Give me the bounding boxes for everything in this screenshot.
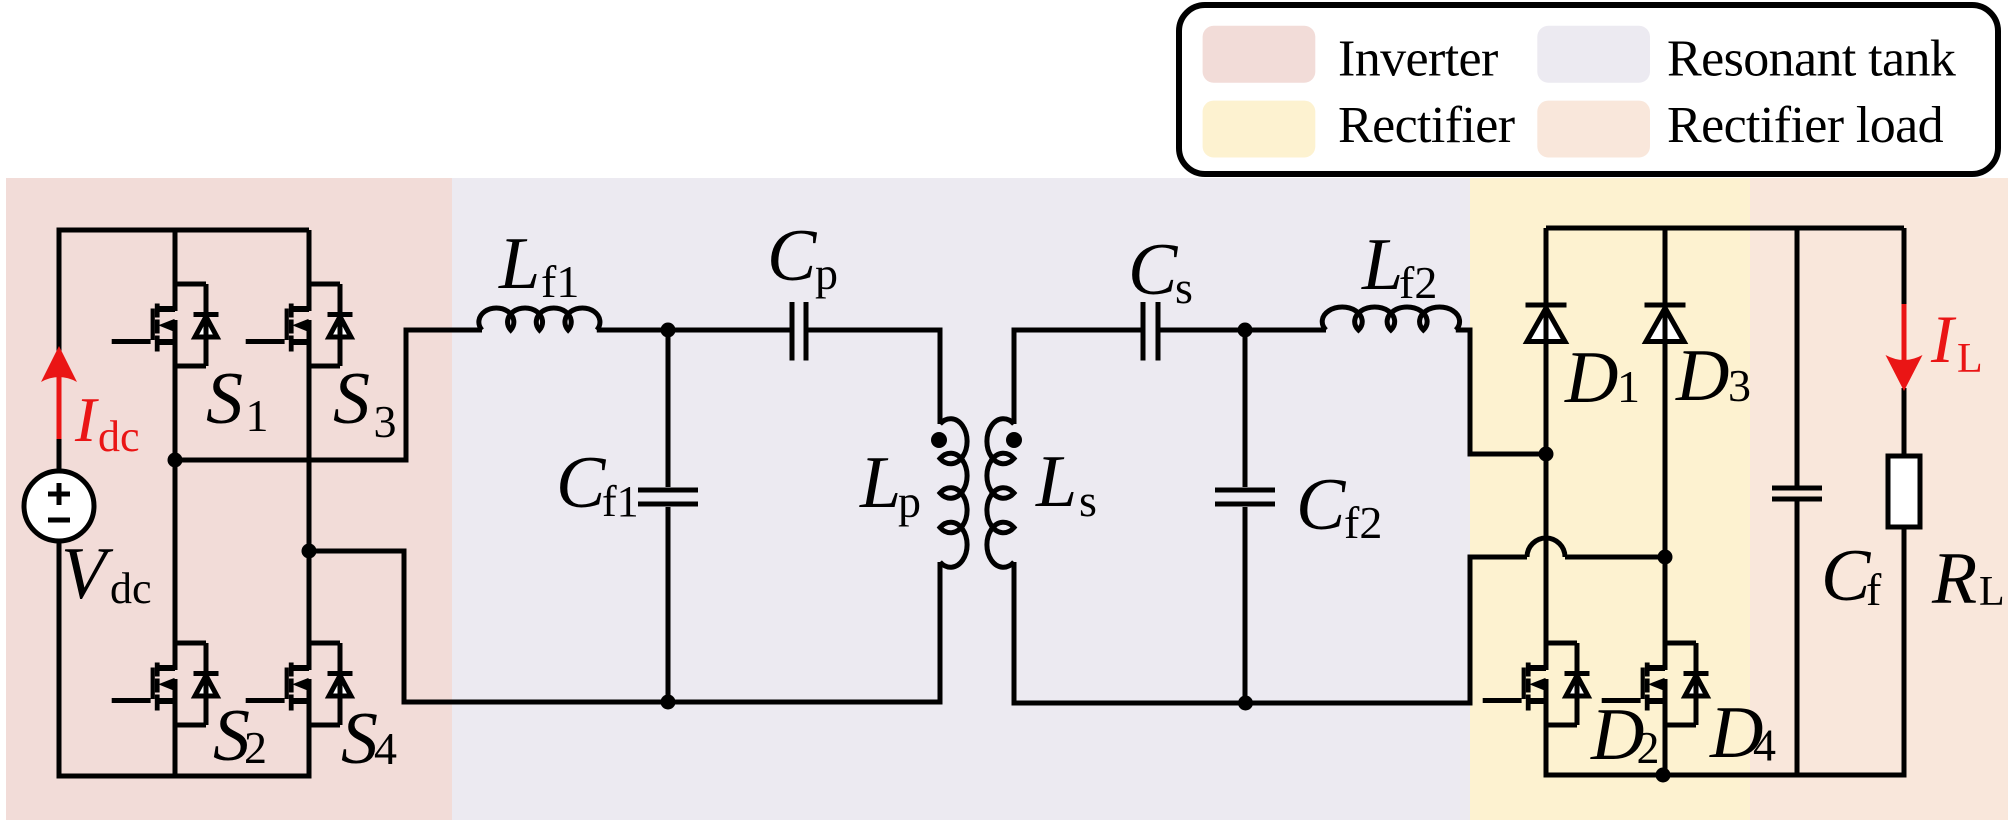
svg-text:Rectifier: Rectifier xyxy=(1338,97,1515,154)
svg-text:4: 4 xyxy=(1753,720,1776,771)
legend swatch resonant tank xyxy=(1537,26,1650,83)
transistor S4 xyxy=(246,643,353,725)
svg-text:S: S xyxy=(341,698,378,780)
svg-text:4: 4 xyxy=(374,723,397,774)
svg-text:f1: f1 xyxy=(541,256,579,307)
transistor S2 xyxy=(112,643,219,725)
svg-text:Resonant tank: Resonant tank xyxy=(1667,31,1956,88)
node rectifier input 2 xyxy=(1658,550,1673,565)
svg-text:S: S xyxy=(206,358,243,440)
resistor RL xyxy=(1888,456,1920,527)
rectifier load background region xyxy=(1750,178,2008,820)
legend swatch inverter xyxy=(1203,26,1316,83)
node Cf2 bottom xyxy=(1238,696,1253,711)
wire Cf2 bottom xyxy=(1243,507,1248,703)
svg-text:2: 2 xyxy=(244,722,267,773)
capacitor Cs xyxy=(1143,302,1158,361)
svg-text:1: 1 xyxy=(1617,361,1640,412)
wire Ls bottom xyxy=(1012,562,1017,706)
rectifier background region xyxy=(1470,178,1750,820)
svg-text:L: L xyxy=(1957,336,1983,382)
transformer dot secondary xyxy=(1006,432,1022,448)
svg-text:C: C xyxy=(1821,535,1872,617)
svg-text:3: 3 xyxy=(1728,360,1751,411)
svg-text:f2: f2 xyxy=(1399,257,1437,308)
svg-text:D: D xyxy=(1675,335,1729,417)
current arrow IL xyxy=(1886,304,1923,391)
wire Ls top xyxy=(1014,330,1143,424)
transformer primary coil Lp xyxy=(940,419,967,568)
node Cf1 top xyxy=(661,323,676,338)
transistor D4 xyxy=(1602,643,1709,725)
wire left rail top xyxy=(57,230,62,471)
svg-text:C: C xyxy=(1296,464,1347,546)
svg-text:1: 1 xyxy=(246,390,269,441)
svg-text:dc: dc xyxy=(110,564,152,613)
svg-text:p: p xyxy=(815,248,838,299)
svg-text:dc: dc xyxy=(98,412,140,461)
wire RL branch top xyxy=(1902,228,1907,310)
wire Cf1 top xyxy=(666,330,671,487)
wire Lp bottom xyxy=(938,562,943,705)
legend swatch rectifier xyxy=(1203,101,1316,158)
svg-text:L: L xyxy=(498,223,540,305)
svg-text:C: C xyxy=(556,442,607,524)
wire Cf branch top xyxy=(1795,228,1800,486)
wire RL arrow to resistor xyxy=(1902,388,1907,456)
svg-text:p: p xyxy=(898,476,921,527)
wire S1S2 branch xyxy=(173,230,178,284)
wire Cf1 bottom xyxy=(666,507,671,702)
svg-text:D: D xyxy=(1564,337,1618,419)
wire S3S4 branch xyxy=(307,230,312,284)
svg-text:C: C xyxy=(767,215,818,297)
svg-text:3: 3 xyxy=(374,396,397,447)
dc source Vdc xyxy=(24,471,94,541)
wire bottom rail inverter xyxy=(57,774,312,779)
svg-text:S: S xyxy=(333,358,370,440)
transistor S1 xyxy=(112,284,219,366)
capacitor Cf1 xyxy=(638,490,698,504)
svg-text:V: V xyxy=(61,533,114,615)
wire bottom rail resonant secondary xyxy=(1012,557,1528,703)
wire inverter output 2 xyxy=(309,551,482,702)
inverter background region xyxy=(6,178,452,820)
svg-text:C: C xyxy=(1128,229,1179,311)
diode D1 xyxy=(1526,305,1567,342)
capacitor Cf2 xyxy=(1215,490,1275,504)
wire top rail rectifier xyxy=(1546,226,1904,231)
wire Cp to Lp xyxy=(806,330,940,424)
svg-text:Inverter: Inverter xyxy=(1338,31,1498,88)
transformer secondary coil Ls xyxy=(987,419,1014,568)
wire hop to D3 node xyxy=(1565,555,1665,560)
svg-text:R: R xyxy=(1931,538,1977,620)
svg-text:f2: f2 xyxy=(1344,497,1382,548)
wire bottom rail resonant primary xyxy=(404,700,943,705)
legend box xyxy=(1179,5,1998,174)
wire hop over D1 line xyxy=(1527,538,1565,557)
node A inverter leg1 midpoint xyxy=(168,453,183,468)
svg-text:L: L xyxy=(1361,224,1403,306)
svg-text:L: L xyxy=(859,442,901,524)
resonant tank background region xyxy=(452,178,1470,820)
wire Lf2 to rectifier input 1 xyxy=(1456,330,1546,454)
svg-text:f1: f1 xyxy=(602,477,639,526)
svg-text:s: s xyxy=(1175,262,1193,313)
legend swatch rectifier load xyxy=(1537,101,1650,158)
wire Cs to Lf2 xyxy=(1158,328,1326,333)
node rectifier input 1 xyxy=(1539,447,1554,462)
wire D3 branch xyxy=(1663,228,1668,305)
wire Lf1 right to Cp xyxy=(597,328,792,333)
wire top rail inverter xyxy=(57,228,310,233)
svg-text:2: 2 xyxy=(1637,722,1660,773)
svg-text:f: f xyxy=(1866,564,1882,615)
svg-text:L: L xyxy=(1035,441,1077,523)
current arrow Idc xyxy=(41,346,77,439)
wire D1 branch xyxy=(1544,228,1549,305)
node rectifier bottom xyxy=(1656,768,1671,783)
transistor S3 xyxy=(246,284,353,366)
inductor Lf2 xyxy=(1322,307,1459,330)
capacitor Cp xyxy=(792,302,806,361)
svg-text:s: s xyxy=(1079,475,1097,526)
svg-text:I: I xyxy=(1930,301,1957,377)
wire Cf2 top xyxy=(1243,330,1248,487)
transformer dot primary xyxy=(931,432,947,448)
node Cf2 top xyxy=(1238,323,1253,338)
svg-text:I: I xyxy=(74,384,99,455)
wire left rail bottom xyxy=(57,541,62,779)
node B inverter leg2 midpoint xyxy=(302,544,317,559)
wire bottom rail rectifier xyxy=(1544,773,1905,778)
wire Cf branch bottom xyxy=(1795,501,1800,775)
transistor D2 xyxy=(1483,643,1590,725)
svg-text:L: L xyxy=(1979,569,2005,615)
capacitor Cf xyxy=(1772,488,1822,499)
svg-text:Rectifier load: Rectifier load xyxy=(1667,97,1944,154)
wire RL branch bottom xyxy=(1902,527,1907,778)
wire inverter output 1 xyxy=(175,330,482,460)
diode D3 xyxy=(1645,305,1686,342)
node Cf1 bottom xyxy=(661,695,676,710)
inductor Lf1 xyxy=(479,308,600,330)
